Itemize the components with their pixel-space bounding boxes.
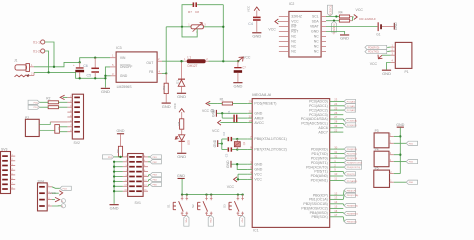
- svg-text:PD7(AIN1): PD7(AIN1): [347, 180, 358, 183]
- svg-text:28: 28: [334, 120, 337, 124]
- resistor R2: [40, 96, 68, 103]
- wire +12V row A: [34, 58, 110, 67]
- node FB: [165, 72, 167, 74]
- supply VCC arrow SV4 pin2: [49, 191, 62, 196]
- wire GND row B: [34, 72, 105, 78]
- wire trimmer row: [166, 26, 191, 28]
- svg-text:IC2: IC2: [289, 2, 295, 6]
- wire SCL row: [326, 16, 339, 18]
- net flag PD0: [343, 147, 357, 151]
- arrow SV2 pin1: [60, 95, 67, 99]
- svg-text:PD3(INT1): PD3(INT1): [311, 161, 328, 165]
- IC2 RTC DS3231: [279, 2, 326, 57]
- svg-text:G1: G1: [376, 33, 380, 37]
- ground below R6: [162, 103, 171, 109]
- supply VCC arrow P1 pin3: [370, 55, 391, 66]
- node rail dots: [113, 161, 115, 193]
- svg-text:32: 32: [334, 154, 337, 158]
- node AREF branch: [221, 112, 223, 114]
- svg-text:PB4(MISO): PB4(MISO): [347, 214, 358, 216]
- svg-text:C3: C3: [225, 153, 229, 157]
- svg-text:IC1: IC1: [253, 229, 259, 232]
- node dot rail end: [104, 77, 106, 79]
- wire AREF branch down: [221, 113, 223, 118]
- svg-text:R6: R6: [162, 86, 166, 90]
- switch S2: [191, 195, 213, 216]
- wire pullup join: [352, 17, 354, 21]
- net flag SV1 pin10: [148, 173, 161, 177]
- svg-text:VCC: VCC: [173, 103, 177, 109]
- svg-text:VCC: VCC: [212, 129, 220, 133]
- wire flag to SV1 pin1: [114, 156, 123, 158]
- net flag S3 (vertical): [240, 215, 245, 226]
- ground below SV1 rail: [110, 204, 119, 210]
- svg-text:NC: NC: [291, 40, 296, 44]
- trimmer R7: [188, 23, 206, 34]
- microcontroller IC1 MEGA8-AI: [252, 92, 330, 233]
- wire P3 to flag: [394, 142, 406, 144]
- supply VCC arrow LED: [173, 103, 184, 119]
- svg-text:GND: GND: [254, 112, 262, 116]
- pad X1-2: [33, 49, 45, 53]
- svg-text:PD7(AIN1): PD7(AIN1): [311, 179, 328, 183]
- svg-text:PC5(SCL): PC5(SCL): [347, 125, 357, 127]
- op-amp/regulator IC3 LM2596S: [110, 46, 162, 89]
- wire divider right riser: [222, 5, 224, 62]
- wire Q2 to SV2 pin8: [59, 131, 67, 133]
- svg-text:NC: NC: [291, 35, 296, 39]
- svg-text:PB5(SCK): PB5(SCK): [347, 222, 357, 224]
- svg-text:R8: R8: [177, 121, 181, 125]
- svg-text:ADC7: ADC7: [318, 130, 327, 134]
- net flag PB4: [343, 211, 358, 215]
- ground above buttons rail: [177, 174, 185, 179]
- capacitor C6: [73, 62, 88, 78]
- capacitor C3: [225, 147, 238, 157]
- label VCC near reset: [202, 109, 214, 113]
- switch S1: [167, 195, 189, 216]
- wire P2 pin2: [39, 129, 55, 131]
- svg-text:PD0(RXD): PD0(RXD): [311, 147, 328, 151]
- svg-text:NC: NC: [314, 35, 319, 39]
- net flag SV1 pin14: [148, 182, 161, 186]
- net flag SV1 pin12: [148, 177, 161, 181]
- net flag PC2: [343, 108, 356, 112]
- svg-text:PD1(TXD): PD1(TXD): [311, 152, 327, 156]
- diode D1: [175, 61, 185, 92]
- svg-text:NC: NC: [291, 50, 296, 54]
- net flag P4: [406, 160, 417, 164]
- svg-text:PD1(TXD): PD1(TXD): [347, 154, 357, 156]
- wire OUT row: [162, 60, 184, 62]
- svg-text:LED: LED: [186, 140, 190, 145]
- ground below RTC: [340, 34, 349, 40]
- svg-text:17: 17: [334, 213, 337, 217]
- svg-text:C5: C5: [87, 74, 92, 78]
- svg-text:GND: GND: [311, 30, 319, 34]
- svg-text:14: 14: [334, 200, 337, 204]
- node trimmer left: [181, 26, 183, 28]
- pin numbers IC1 right: [334, 98, 337, 217]
- svg-text:R7: R7: [188, 10, 192, 14]
- svg-text:VBAT: VBAT: [310, 25, 320, 29]
- wire P3 to rail: [394, 135, 401, 137]
- resistor R6: [162, 73, 168, 102]
- svg-text:VCC: VCC: [291, 20, 299, 24]
- wire crystal to PB6: [237, 138, 247, 140]
- svg-text:ON/OFF: ON/OFF: [120, 65, 132, 69]
- svg-text:GND: GND: [254, 162, 262, 166]
- supply VCC arrow at IC1 VCC pins: [227, 174, 248, 189]
- wire P1 pin1: [387, 46, 390, 48]
- svg-text:25: 25: [334, 106, 337, 110]
- net flag R2: [28, 100, 39, 104]
- svg-text:PC4(ADC4/SDA): PC4(ADC4/SDA): [301, 117, 328, 121]
- svg-text:PD1(TXD): PD1(TXD): [368, 51, 379, 54]
- supply VCC output arrow: [238, 56, 251, 62]
- svg-text:10: 10: [334, 172, 337, 176]
- net flag PD7: [343, 179, 357, 183]
- svg-text:23: 23: [334, 98, 337, 102]
- svg-text:VCC: VCC: [356, 8, 364, 12]
- arrow RESET net: [206, 101, 217, 105]
- capacitor C4 with VCC arrow: [247, 6, 261, 32]
- net flag PC4: [343, 119, 357, 123]
- resistor R9: [116, 146, 123, 157]
- resistor R8: [177, 119, 184, 135]
- svg-text:PB2(SS/OC1B): PB2(SS/OC1B): [303, 202, 327, 206]
- wire GND pin 21: [217, 112, 247, 114]
- wire enable/gnd vertical: [105, 67, 110, 88]
- svg-text:PD2(INT0): PD2(INT0): [311, 156, 328, 160]
- svg-text:PD3(INT1/LED): PD3(INT1/LED): [347, 163, 363, 165]
- pad X2-1: [61, 199, 65, 203]
- net flag PC1: [343, 104, 356, 108]
- net flag SV1 pin4: [148, 160, 161, 164]
- wire P4 to rail: [394, 154, 401, 156]
- net flag SV1 pin1: [102, 155, 113, 159]
- net flag PB3: [343, 204, 358, 208]
- transistor Q2 block: [55, 125, 61, 134]
- node gnd pins: [236, 163, 238, 165]
- svg-text:C2: C2: [222, 131, 226, 135]
- resistor R4: [339, 10, 353, 18]
- ground rotated at IC1 GND pins 3,5: [226, 160, 231, 168]
- svg-text:VCC: VCC: [247, 6, 251, 12]
- svg-text:LM2596S: LM2596S: [117, 85, 133, 89]
- svg-text:P1: P1: [405, 70, 409, 74]
- node SCL flag: [335, 15, 337, 17]
- ground at battery (rotated): [394, 22, 398, 30]
- svg-text:X1-2: X1-2: [33, 49, 40, 53]
- svg-text:GND: GND: [117, 129, 125, 133]
- pin stubs IC1 left: [247, 104, 252, 180]
- svg-text:PD6(AIN0): PD6(AIN0): [311, 174, 328, 178]
- node dot C5 top: [94, 57, 96, 59]
- ground below D1: [177, 93, 186, 99]
- net flag SDA (vertical): [331, 21, 336, 34]
- wire RTC GND pin: [326, 32, 345, 35]
- svg-text:R9: R9: [116, 149, 120, 153]
- svg-text:VCC: VCC: [254, 172, 262, 176]
- connector P1: [391, 42, 412, 74]
- net flag SV1 pin2: [148, 155, 161, 159]
- svg-text:C8: C8: [195, 10, 199, 14]
- net flag P3: [406, 141, 417, 145]
- node trimmer right: [222, 26, 224, 28]
- svg-text:Q1: Q1: [242, 141, 246, 145]
- svg-text:R2: R2: [46, 96, 50, 100]
- node P4 rail: [399, 154, 401, 156]
- svg-text:NC: NC: [314, 50, 319, 54]
- capacitor C2: [222, 131, 237, 141]
- ground rotated at crystal: [213, 139, 218, 147]
- net flag P1 TXD (long): [365, 50, 387, 54]
- svg-text:SDA: SDA: [312, 20, 320, 24]
- svg-text:32KHZ: 32KHZ: [291, 15, 302, 19]
- connector SV1: [123, 154, 148, 206]
- svg-text:C6: C6: [83, 64, 88, 68]
- node D1 top: [180, 60, 182, 62]
- svg-text:VCC: VCC: [202, 109, 210, 113]
- net flag PD4 (long): [343, 165, 362, 169]
- svg-text:31: 31: [334, 150, 337, 154]
- switch S3: [222, 195, 244, 216]
- svg-text:R4: R4: [339, 10, 343, 14]
- net flag PB5: [343, 217, 357, 224]
- ground below C7: [233, 82, 242, 88]
- svg-text:11: 11: [334, 177, 337, 181]
- connector P2: [25, 116, 39, 137]
- inductor L1 DH127: [184, 56, 209, 68]
- svg-text:PD0(RXD): PD0(RXD): [368, 46, 379, 49]
- wire gnd pin link: [105, 75, 110, 77]
- wire P5 to rail: [394, 173, 401, 175]
- svg-text:21: 21: [249, 110, 252, 114]
- wire P2 pin1 to SV2 pin6: [39, 122, 50, 125]
- net flag P5: [406, 180, 417, 184]
- node vcc pins: [237, 178, 239, 180]
- svg-text:27: 27: [334, 115, 337, 119]
- wire FB riser to divider: [165, 27, 167, 74]
- capacitor C5: [87, 58, 99, 79]
- svg-text:GND: GND: [177, 174, 185, 178]
- ground above R9: [117, 129, 125, 147]
- svg-text:VCC: VCC: [227, 185, 235, 189]
- connector P4: [374, 148, 394, 167]
- wire X1-1 to node: [45, 42, 54, 67]
- net flag PD3 (long): [343, 161, 362, 165]
- svg-text:C7: C7: [242, 65, 246, 69]
- LED D2: [175, 135, 190, 153]
- svg-text:PC0(ADC0): PC0(ADC0): [309, 100, 328, 104]
- svg-text:30: 30: [334, 145, 337, 149]
- ground above P3 rail: [396, 123, 404, 128]
- svg-text:PC2(ADC2): PC2(ADC2): [309, 108, 328, 112]
- connector SV3: [1, 147, 16, 193]
- svg-text:RST: RST: [291, 30, 299, 34]
- pad X2-2: [61, 204, 65, 208]
- svg-text:SV3: SV3: [1, 147, 8, 151]
- capacitor C7: [234, 61, 247, 82]
- wire P3 gnd rail: [399, 128, 401, 174]
- wire P4 to flag: [394, 161, 406, 163]
- supply VCC arrow pullups: [353, 8, 364, 19]
- svg-text:S1: S1: [167, 204, 171, 208]
- svg-text:S2: S2: [191, 204, 195, 208]
- svg-text:L1: L1: [188, 56, 192, 60]
- net flag PB0: [343, 188, 356, 195]
- svg-text:OUT: OUT: [146, 61, 153, 65]
- svg-text:VCC: VCC: [254, 178, 262, 182]
- svg-text:15: 15: [334, 205, 337, 209]
- net flag SV4 pin1: [52, 186, 71, 190]
- crystal Q1: [234, 139, 246, 150]
- svg-text:VCC: VCC: [49, 191, 56, 195]
- supply VCC arrow AVCC: [212, 120, 247, 133]
- net flag P1 RXD (long): [365, 45, 387, 49]
- connector SV2: [67, 94, 83, 145]
- svg-text:PC6(/RESET): PC6(/RESET): [254, 102, 276, 106]
- svg-text:D1: D1: [175, 80, 179, 84]
- svg-text:PC0(A0): PC0(A0): [347, 100, 356, 103]
- svg-text:PD4(XCK/T0): PD4(XCK/T0): [306, 165, 328, 169]
- svg-text:24: 24: [334, 102, 337, 106]
- wire VCC row after L1: [209, 60, 239, 62]
- resistor R5: [339, 19, 352, 22]
- battery G1: [359, 17, 394, 37]
- svg-text:CR-1220/LF: CR-1220/LF: [359, 17, 376, 21]
- svg-text:PD5(T1): PD5(T1): [347, 174, 356, 176]
- wire buttons gnd rail: [182, 179, 243, 195]
- svg-text:X1-1: X1-1: [33, 40, 40, 44]
- svg-text:IC3: IC3: [116, 46, 122, 50]
- svg-text:PC2(A2): PC2(A2): [347, 109, 356, 112]
- arrow SV4 pin3: [52, 197, 60, 201]
- ground P1: [382, 70, 391, 76]
- net flag PD2: [343, 156, 357, 160]
- svg-text:PC4(SDA): PC4(SDA): [332, 24, 335, 35]
- node rail dots buttons: [181, 193, 244, 195]
- svg-text:19: 19: [334, 124, 337, 128]
- node dot X1-2: [47, 71, 49, 73]
- connector SV4: [38, 179, 53, 211]
- svg-text:GND: GND: [120, 74, 128, 78]
- svg-text:PD4(XCK/T0): PD4(XCK/T0): [347, 167, 361, 169]
- ground rotated at IC1 GND pin 21: [212, 109, 217, 117]
- pad X1-1: [33, 40, 45, 44]
- ground below C4: [252, 32, 261, 38]
- net flag S1 (vertical): [184, 215, 189, 226]
- pin numbers IC1 left: [249, 100, 253, 180]
- svg-text:INT: INT: [291, 25, 297, 29]
- svg-text:SCL: SCL: [312, 15, 319, 19]
- svg-text:PB1(OC1A): PB1(OC1A): [347, 194, 359, 197]
- svg-text:C1: C1: [227, 110, 231, 114]
- node P3 rail: [399, 135, 401, 137]
- net flag PD1: [343, 152, 357, 156]
- wire VBAT to battery: [326, 26, 377, 28]
- svg-text:MEGA8-AI: MEGA8-AI: [252, 92, 271, 97]
- svg-text:S3: S3: [222, 204, 226, 208]
- wire GND pins 3,5: [232, 163, 248, 165]
- svg-text:18: 18: [249, 119, 252, 123]
- node R9 junction: [119, 156, 121, 158]
- svg-text:R1: R1: [220, 98, 224, 102]
- node dot gnd pin: [104, 75, 106, 77]
- resistor R3: [40, 106, 68, 109]
- pin stubs IC1 right: [330, 101, 344, 216]
- node crystal top: [236, 138, 238, 140]
- node dot C6 top: [79, 61, 81, 63]
- node divider top: [222, 60, 224, 62]
- wire FB stub: [162, 72, 166, 74]
- svg-text:DH127: DH127: [188, 64, 198, 68]
- node A dot: [53, 66, 55, 68]
- wire Q2 to SV2 pin7: [59, 126, 67, 128]
- wire P1 pin4 to ground: [387, 63, 391, 70]
- svg-text:VCC: VCC: [243, 56, 251, 60]
- svg-text:PC1(A1): PC1(A1): [347, 105, 356, 108]
- capacitor C1: [222, 110, 247, 123]
- resistor R1: [217, 98, 247, 105]
- wire SDA row: [326, 20, 339, 22]
- svg-text:13: 13: [334, 196, 337, 200]
- svg-text:PC5(SCL): PC5(SCL): [330, 5, 332, 16]
- svg-text:VCC: VCC: [268, 28, 276, 32]
- svg-text:22: 22: [334, 128, 337, 132]
- svg-text:PD2(INT0): PD2(INT0): [347, 158, 358, 160]
- svg-text:PB6(XTAL1/TOSC1): PB6(XTAL1/TOSC1): [254, 137, 286, 141]
- svg-text:SV1: SV1: [135, 201, 142, 205]
- node dot C5 bottom: [94, 77, 96, 79]
- svg-text:PC4(SDA): PC4(SDA): [347, 120, 357, 123]
- node C7 tap: [237, 60, 239, 62]
- svg-text:NC: NC: [291, 45, 296, 49]
- svg-text:26: 26: [334, 111, 337, 115]
- wire trimmer wiper loop: [182, 27, 197, 37]
- ground below LED: [177, 153, 186, 159]
- node SDA flag: [333, 20, 335, 22]
- svg-text:29: 29: [249, 100, 252, 104]
- wire crystal gnd: [218, 143, 222, 145]
- svg-text:GND: GND: [254, 168, 262, 172]
- wire SV1 left rail: [113, 162, 115, 204]
- net flag SCL (vertical): [327, 5, 332, 16]
- net flag R3: [28, 105, 39, 109]
- wire SV4 pin4: [52, 205, 61, 207]
- supply VCC arrow at IC2 VCC pin: [268, 19, 279, 32]
- wire top loop with capacitor C8: [197, 4, 223, 6]
- svg-text:PD5(T1): PD5(T1): [314, 170, 327, 174]
- svg-text:VCC: VCC: [370, 62, 378, 66]
- svg-text:PB5(SCK): PB5(SCK): [311, 215, 327, 219]
- wire P5 to flag: [394, 181, 406, 183]
- svg-text:AVCC: AVCC: [254, 121, 264, 125]
- net flag PC5: [343, 123, 357, 127]
- svg-text:C4: C4: [248, 22, 253, 26]
- connector P5: [374, 167, 394, 188]
- net flag PD5: [343, 172, 355, 176]
- node dot C6 bottom: [79, 77, 81, 79]
- net flag PB1: [343, 193, 358, 199]
- svg-text:VIN: VIN: [120, 56, 126, 60]
- svg-text:12: 12: [334, 191, 337, 195]
- svg-text:J1: J1: [14, 58, 18, 62]
- svg-text:PB0(ICP): PB0(ICP): [347, 190, 357, 192]
- connector J1 power jack: [14, 58, 34, 77]
- node crystal bottom: [236, 148, 238, 150]
